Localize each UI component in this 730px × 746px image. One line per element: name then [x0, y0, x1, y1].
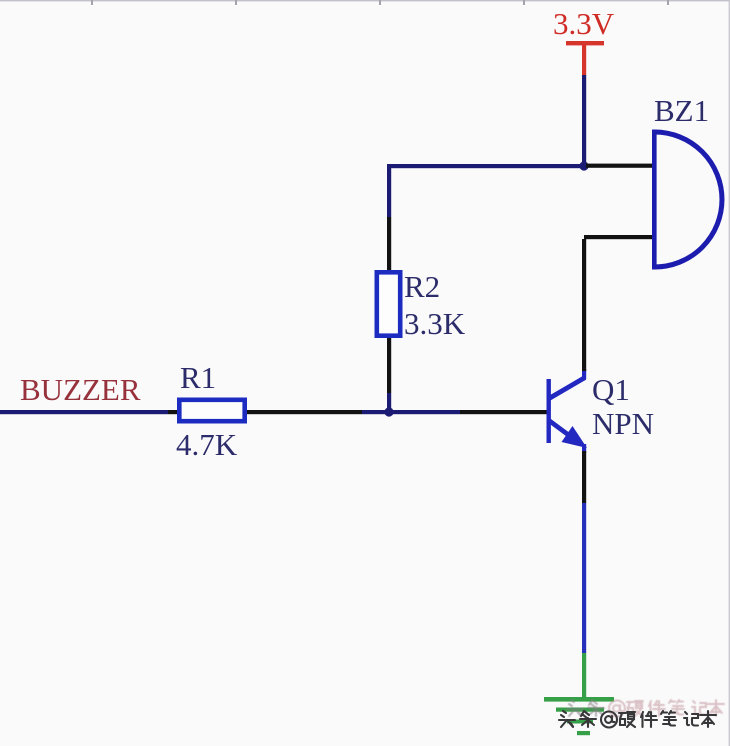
- resistor R2 bottom pin (black): [387, 338, 391, 393]
- border tick 5: [667, 0, 669, 5]
- svg-text:R1: R1: [180, 360, 216, 395]
- svg-text:R2: R2: [404, 269, 440, 304]
- resistor R1 right pin and wire (black): [247, 410, 362, 414]
- transistor Q1 base pin (black): [460, 410, 548, 414]
- wire junction to base (navy): [362, 410, 460, 414]
- border tick 2: [235, 0, 237, 5]
- svg-text:BZ1: BZ1: [654, 93, 709, 128]
- wire buzzer pin 2 (bottom, black): [584, 235, 652, 239]
- wire ground stem (green): [582, 653, 586, 699]
- power symbol 3.3V bar: [566, 41, 604, 45]
- sheet border top line: [0, 0, 730, 1]
- wire power stem to junction (navy): [582, 75, 586, 168]
- wire R2 bottom to junction (navy): [387, 393, 391, 414]
- wire emitter down (blue): [582, 503, 586, 653]
- wire BUZZER net from left edge (navy): [0, 410, 168, 414]
- wire buzzer pin 1 (top, black): [586, 164, 652, 168]
- svg-text:3.3K: 3.3K: [404, 306, 466, 341]
- node junction at R1/R2/base: [384, 407, 393, 416]
- sheet border right line: [729, 0, 730, 746]
- svg-text:NPN: NPN: [592, 406, 654, 441]
- ground symbol bar 4: [577, 731, 590, 735]
- border tick 3: [379, 0, 381, 5]
- svg-text:BUZZER: BUZZER: [20, 372, 141, 407]
- wire emitter down (black): [582, 451, 586, 503]
- buzzer BZ1 dome arc: [655, 132, 722, 267]
- buzzer BZ1 plate: [652, 130, 657, 270]
- svg-text:4.7K: 4.7K: [176, 427, 238, 462]
- ground symbol bar 1: [544, 697, 614, 702]
- transistor Q1 base bar: [547, 379, 551, 443]
- resistor R1 body: [179, 400, 244, 421]
- transistor Q1 collector stub: [582, 369, 586, 379]
- resistor R2 top pin (black): [387, 217, 391, 270]
- border tick 1: [91, 0, 93, 5]
- resistor R1 left pin (black): [168, 410, 178, 414]
- resistor R2 body: [377, 272, 400, 335]
- watermark dark text: [559, 711, 716, 728]
- transistor Q1 emitter diagonal: [549, 421, 578, 443]
- transistor Q1 emitter stub: [582, 444, 586, 453]
- transistor Q1 emitter arrow: [562, 426, 588, 448]
- watermark ghost layer (faded duplicate): [567, 700, 724, 717]
- wire R2 top corner vertical (navy): [387, 164, 391, 217]
- svg-text:3.3V: 3.3V: [553, 6, 615, 41]
- transistor Q1 collector diagonal: [549, 378, 585, 399]
- svg-text:Q1: Q1: [592, 372, 630, 407]
- wire collector vertical (black): [582, 239, 586, 371]
- ground symbol bar 3: [567, 720, 593, 724]
- border tick 4: [523, 0, 525, 5]
- wire top horizontal R2-to-junction: [387, 164, 586, 168]
- ground symbol bar 2: [556, 708, 604, 712]
- node junction at power/buzzer: [579, 161, 588, 170]
- power symbol stem (red part): [582, 44, 586, 75]
